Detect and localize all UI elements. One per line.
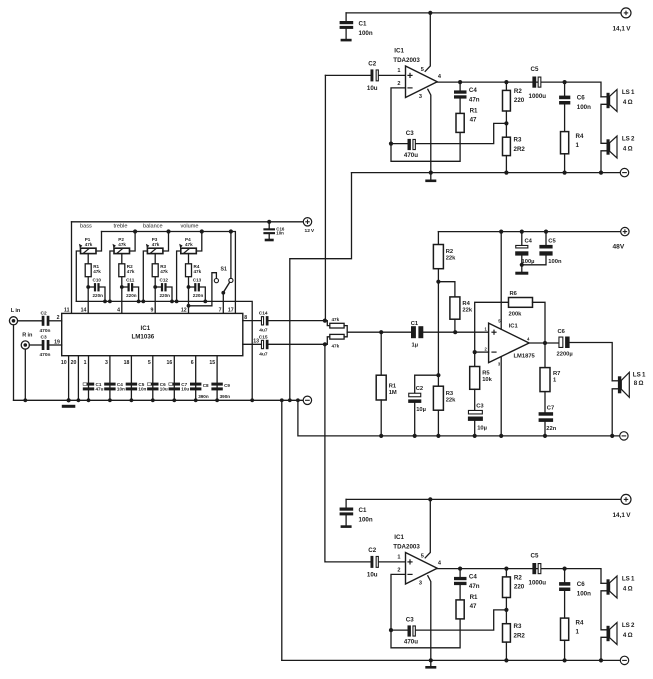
wire pin 6 [195, 356, 197, 401]
svg-text:C1: C1 [359, 21, 367, 28]
pin 16 label [167, 360, 173, 366]
svg-text:14,1 V: 14,1 V [613, 25, 632, 32]
label C4 47n (top amp) [469, 87, 480, 103]
label C6 100n (top amp) [577, 95, 591, 112]
svg-text:C6: C6 [577, 581, 585, 588]
svg-text:R4: R4 [576, 619, 584, 626]
label 47k R [332, 344, 340, 349]
svg-text:100n: 100n [548, 259, 562, 265]
svg-text:8 Ω: 8 Ω [634, 380, 644, 387]
wire pin 5 (top amp) [425, 13, 430, 71]
junction C13-gnd [203, 300, 207, 304]
capacitor C1 47u [83, 383, 94, 391]
svg-text:C2: C2 [368, 547, 376, 554]
capacitor C7 10u [169, 383, 180, 391]
label C5 10n [138, 382, 146, 392]
junction output-R2 (top amp) [504, 80, 508, 84]
label C11 [126, 278, 135, 283]
svg-text:15: 15 [209, 360, 215, 366]
wire R6-out [533, 302, 546, 343]
label C1 100n (bottom amp) [359, 507, 373, 523]
wire P1 right [96, 232, 102, 252]
wire top amp ground return [290, 173, 352, 401]
label R3 2R2 (top amp) [514, 137, 526, 153]
label C1 1u [411, 321, 419, 349]
capacitor C4 10n [104, 383, 115, 391]
svg-text:10n: 10n [117, 387, 125, 392]
svg-text:IC1: IC1 [141, 325, 151, 332]
label C12 [160, 278, 169, 283]
resistor R2 47k [119, 264, 125, 277]
wire minus rail (bottom amp) [282, 659, 621, 661]
label P2 47k [118, 237, 126, 247]
svg-text:3: 3 [105, 360, 108, 366]
junction P3 top [166, 229, 170, 233]
junction R4-gnd (bottom amp) [563, 658, 567, 662]
capacitor C3 10u [468, 389, 483, 436]
junction output-R2 (bottom amp) [504, 567, 508, 571]
svg-text:C2: C2 [41, 310, 47, 316]
wire LS1 mid bottom [612, 389, 618, 436]
svg-text:1µ: 1µ [412, 343, 419, 349]
ground bus sym [62, 405, 76, 408]
label L in [11, 308, 21, 314]
capacitor C6 (bottom amp) [559, 569, 570, 619]
junction out node [543, 341, 547, 345]
pin 5 label [148, 360, 151, 366]
svg-text:6: 6 [191, 360, 194, 366]
junction C4-C5 [520, 263, 524, 267]
wire pin 10 [68, 356, 70, 401]
svg-text:R3: R3 [514, 137, 522, 144]
wire R2-R3 [437, 282, 439, 376]
wire L in [18, 320, 42, 322]
wire P2 left [110, 251, 114, 301]
svg-text:C8: C8 [203, 383, 209, 388]
svg-text:R in: R in [22, 332, 33, 338]
junction R2-R4 [436, 280, 440, 284]
op-amp IC1 LM1875 [489, 323, 529, 363]
terminal minus (top amp) [620, 168, 628, 176]
capacitor C1 1u [411, 326, 489, 338]
svg-text:R2: R2 [446, 249, 453, 255]
svg-text:100n: 100n [577, 104, 591, 111]
pin1 lbl [485, 327, 488, 332]
resistor R2 (top amp) [503, 82, 511, 123]
svg-text:18: 18 [124, 360, 130, 366]
svg-text:C14: C14 [259, 310, 268, 316]
terminal L in [9, 317, 17, 325]
resistor R1 1M [376, 332, 386, 436]
potentiometer P3 47k [146, 244, 163, 254]
label C6 2200u [557, 329, 573, 357]
svg-text:2200µ: 2200µ [557, 351, 573, 357]
wire L in gnd [13, 325, 15, 400]
label IC1 TDA2003 (bottom amp) [393, 534, 420, 551]
terminal +14.1V (bottom amp) [621, 494, 631, 504]
label C12 220n [160, 293, 171, 298]
label C6 10u [160, 382, 168, 392]
svg-text:volume: volume [181, 223, 199, 229]
label C9 390n [220, 383, 231, 399]
resistor R4 47k [186, 264, 192, 277]
wire out [529, 342, 558, 344]
pin 3 (top amp) [419, 94, 422, 100]
svg-text:220n: 220n [93, 293, 104, 298]
svg-text:4 Ω: 4 Ω [623, 145, 633, 152]
svg-text:C5: C5 [531, 66, 539, 73]
svg-text:4 Ω: 4 Ω [623, 585, 633, 592]
junction P4 left-gnd [175, 300, 179, 304]
label C4 10n [117, 382, 125, 392]
label C10 220n [93, 293, 104, 298]
label 48V [613, 243, 625, 250]
label R2 220 (top amp) [514, 88, 525, 104]
capacitor C4 (bottom amp) [454, 569, 467, 600]
svg-text:47k: 47k [118, 242, 126, 247]
capacitor C6 (top amp) [559, 82, 570, 132]
junction R2-R3 (bottom amp) [504, 608, 508, 612]
junction LS1-gnd [610, 434, 614, 438]
potentiometer P1 47k [79, 244, 96, 254]
wire pin 15 [216, 356, 218, 401]
op-amp IC1 TDA2003 (top amp) [406, 66, 438, 98]
label R5 10k [482, 370, 492, 383]
svg-text:LS 1: LS 1 [622, 89, 635, 96]
loudspeaker LS1 (bottom amp) [607, 576, 618, 598]
svg-text:470n: 470n [40, 352, 51, 358]
svg-text:2R2: 2R2 [514, 146, 526, 153]
label P1 47k [85, 237, 93, 247]
capacitor C12 220n [155, 283, 172, 301]
label 14,1 V (top amp) [613, 25, 632, 32]
wire pin 3 [109, 356, 111, 401]
label R6 [510, 291, 518, 297]
svg-text:R3: R3 [446, 391, 454, 397]
junction R4-gnd (top amp) [563, 171, 567, 175]
label R1 47 (bottom amp) [470, 594, 478, 610]
label C5 100n [548, 239, 562, 266]
pin 18 label [124, 360, 130, 366]
svg-text:C1: C1 [411, 321, 419, 327]
label R2 47k [127, 264, 135, 274]
wire LS1-LS2 (bottom amp) [601, 591, 607, 630]
svg-text:C9: C9 [224, 383, 230, 388]
svg-text:IC1: IC1 [509, 324, 519, 330]
wire LS2-gnd (bottom amp) [601, 637, 607, 660]
junction gndsym-bus [67, 398, 71, 402]
junction C16 [267, 220, 271, 224]
capacitor C6 10u [147, 383, 158, 391]
capacitor C4 (top amp) [454, 82, 467, 113]
label C11 220n [126, 293, 137, 298]
wire P3 wiper pin 9 [154, 254, 156, 314]
svg-text:47k: 47k [332, 344, 340, 349]
svg-text:16: 16 [167, 360, 173, 366]
terminal +12V [303, 218, 311, 226]
capacitor C13 220n [189, 283, 206, 301]
svg-text:C3: C3 [406, 617, 414, 624]
svg-text:3: 3 [419, 94, 422, 100]
pin 3 (bottom amp) [419, 580, 422, 586]
svg-text:10u: 10u [160, 387, 168, 392]
resistor R1 47k [85, 264, 91, 277]
wire pin 2 feedback (top amp) [391, 88, 460, 161]
svg-text:IC1: IC1 [394, 47, 404, 54]
label C10 [93, 278, 102, 283]
svg-text:1: 1 [84, 360, 87, 366]
loudspeaker LS2 (top amp) [607, 136, 618, 158]
pin5 lbl [498, 319, 501, 324]
wire P3 right [163, 232, 169, 252]
svg-text:47u: 47u [96, 387, 104, 392]
pin 1 (bottom amp) [397, 554, 400, 560]
svg-text:1000u: 1000u [529, 93, 547, 100]
svg-text:S1: S1 [221, 266, 227, 272]
wire input (bottom amp) [325, 561, 370, 563]
svg-text:2: 2 [397, 81, 400, 87]
wire R in gnd [24, 349, 26, 400]
label volume [181, 223, 199, 229]
resistor R7 1 [540, 343, 550, 392]
label 200k [509, 311, 523, 317]
wire pin 20 [77, 356, 79, 401]
pin 20 label [71, 360, 77, 366]
junction LS-gnd (top amp) [599, 171, 603, 175]
junction pin 6-bus [194, 398, 198, 402]
pin 4 (bottom amp) [438, 561, 442, 567]
svg-text:10µ: 10µ [477, 425, 487, 431]
svg-text:C15: C15 [259, 334, 268, 340]
svg-text:treble: treble [114, 223, 128, 229]
svg-text:R2: R2 [514, 574, 522, 581]
junction pin 20-bus [77, 398, 81, 402]
label C4 100u [522, 239, 535, 266]
svg-text:LS 2: LS 2 [622, 622, 635, 629]
svg-text:19: 19 [54, 339, 60, 345]
svg-text:47k: 47k [160, 269, 168, 274]
label C2 10u [416, 386, 426, 413]
wire pin 8 [243, 320, 261, 322]
svg-text:C11: C11 [126, 278, 135, 283]
wire pin 5 (bottom amp) [425, 499, 430, 557]
label C7 10u [181, 382, 189, 392]
svg-text:10: 10 [61, 360, 67, 366]
capacitor C2 input [42, 316, 62, 326]
junction LS-gnd (bottom amp) [599, 658, 603, 662]
svg-text:R6: R6 [510, 291, 518, 297]
pin 1 label [84, 360, 87, 366]
svg-text:8: 8 [244, 315, 247, 321]
svg-text:C5: C5 [531, 553, 539, 560]
capacitor C5 (bottom amp) [532, 563, 540, 574]
wire pin 5 [152, 356, 154, 401]
pin 17 label [228, 308, 234, 314]
svg-text:2: 2 [57, 315, 60, 321]
svg-text:2: 2 [397, 567, 400, 573]
svg-text:4 Ω: 4 Ω [623, 99, 633, 106]
resistor R2 22k [433, 232, 443, 282]
capacitor C10 220n [88, 283, 105, 301]
junction pin13-riser [323, 342, 327, 346]
junction P3 left-gnd [141, 300, 145, 304]
capacitor C3 (top amp) [391, 123, 506, 150]
junction inv node [473, 350, 477, 354]
label R3 2R2 (bottom amp) [514, 623, 526, 639]
svg-text:C5: C5 [548, 239, 556, 245]
svg-text:48V: 48V [613, 243, 625, 250]
svg-text:4 Ω: 4 Ω [623, 632, 633, 639]
wire mid rail [438, 231, 621, 233]
svg-text:470n: 470n [40, 328, 51, 334]
capacitor C9 390n [211, 383, 222, 391]
wire LS2-gnd (top amp) [601, 151, 607, 173]
wire P1 left [76, 251, 80, 301]
label R1 47k [93, 264, 101, 274]
label IC1 TDA2003 (top amp) [393, 47, 420, 64]
junction wiper-C12 [153, 285, 157, 289]
IC LM1036 box [62, 313, 243, 355]
ground C1 (top amp) [341, 39, 352, 42]
terminal mid minus [620, 432, 628, 440]
svg-text:C1: C1 [359, 507, 367, 514]
wire S1 a [189, 273, 217, 306]
svg-text:3: 3 [419, 580, 422, 586]
svg-text:LM1036: LM1036 [132, 333, 155, 340]
junction bus-line3 [250, 398, 254, 402]
svg-text:C3: C3 [476, 403, 484, 409]
wire pot top line [102, 232, 236, 314]
wire pot gnd line [76, 301, 252, 400]
capacitor C3 (bottom amp) [391, 610, 506, 637]
pin 6 label [191, 360, 194, 366]
svg-text:R4: R4 [462, 301, 470, 307]
wire pin 16 [173, 356, 175, 401]
label R4 22k [462, 301, 472, 314]
capacitor C15 4u7 [261, 340, 324, 349]
svg-text:47k: 47k [332, 317, 340, 322]
switch S1 [214, 278, 233, 294]
label C13 [193, 278, 202, 283]
wire mono input [347, 331, 411, 333]
pin 5 (top amp) [421, 67, 424, 73]
svg-text:C6: C6 [558, 329, 566, 335]
junction bus-topamp [288, 398, 292, 402]
label C13 220n [193, 293, 204, 298]
svg-text:R1: R1 [389, 383, 397, 389]
capacitor C2 (top amp) [371, 69, 406, 81]
label C7 22n [546, 405, 556, 432]
label IC1 LM1036 [132, 325, 155, 341]
label C5 1000u (top amp) [529, 66, 547, 100]
label C4 47n (bottom amp) [469, 574, 480, 590]
svg-text:10µ: 10µ [416, 407, 426, 413]
svg-text:100n: 100n [577, 591, 591, 598]
loudspeaker LS2 (bottom amp) [607, 623, 618, 645]
capacitor C1 (bottom amp) [340, 499, 354, 525]
svg-text:C13: C13 [193, 278, 202, 283]
wire P4 left [177, 251, 181, 301]
junction bus-botamp [280, 398, 284, 402]
junction pin 18-bus [130, 398, 134, 402]
resistor R1 (bottom amp) [456, 600, 464, 619]
junction wiper-C11 [120, 285, 124, 289]
junction C5-rail [544, 230, 548, 234]
svg-text:100n: 100n [359, 516, 373, 523]
svg-text:22k: 22k [462, 307, 472, 313]
svg-text:47k: 47k [85, 242, 93, 247]
label LS2 4ohm (top amp) [622, 135, 635, 152]
svg-text:10n: 10n [138, 387, 146, 392]
label treble [114, 223, 128, 229]
junction pin 10-bus [67, 398, 71, 402]
junction C3-gnd [473, 434, 477, 438]
label LS1 4ohm (top amp) [622, 89, 635, 106]
label balance [143, 223, 163, 229]
resistor R3 47k [152, 264, 158, 277]
wire fb up [475, 302, 509, 352]
wire bottom amp input riser [324, 344, 327, 562]
svg-text:10n: 10n [276, 231, 284, 236]
svg-text:1: 1 [576, 142, 580, 149]
junction C12-gnd [170, 300, 174, 304]
junction R4-input [453, 330, 457, 334]
junction pin3-gnd [499, 434, 503, 438]
svg-text:22n: 22n [546, 426, 556, 432]
pin 2 label [57, 315, 60, 321]
terminal minus (bottom amp) [620, 656, 628, 664]
pin 19 label [54, 339, 60, 345]
svg-text:C12: C12 [160, 278, 169, 283]
svg-text:C2: C2 [416, 386, 423, 392]
label C8 390n [198, 383, 209, 399]
wire LS1 mid top [612, 380, 618, 382]
svg-text:220n: 220n [193, 293, 204, 298]
wire pin 18 [130, 356, 132, 401]
svg-text:LS 1: LS 1 [633, 371, 646, 378]
label IC1 [509, 324, 519, 330]
label C3 470u (bottom amp) [404, 617, 418, 646]
svg-text:10u: 10u [367, 85, 378, 92]
label P4 47k [185, 237, 193, 247]
junction pin 1-bus [87, 398, 91, 402]
pin 7 label [219, 308, 222, 314]
wire pin 3 (bottom amp) [428, 576, 431, 661]
resistor R3 22k [433, 375, 443, 436]
junction C4-rail [520, 230, 524, 234]
ground C16 [265, 239, 274, 242]
capacitor C7 22n [539, 392, 554, 436]
junction R1-gnd [379, 434, 383, 438]
svg-text:47k: 47k [185, 242, 193, 247]
svg-text:470u: 470u [404, 638, 418, 645]
wire P4 right [196, 232, 202, 252]
loudspeaker LS1 (top amp) [607, 90, 618, 112]
svg-text:22k: 22k [446, 255, 456, 261]
svg-text:C4: C4 [525, 239, 533, 245]
wire P2 right [130, 232, 136, 252]
label R3 22k [446, 391, 456, 404]
junction pin2-C3 (top amp) [389, 142, 393, 146]
label R1 1M [389, 383, 397, 396]
wire pin 2 feedback (bottom amp) [391, 574, 460, 647]
junction R1 1M [379, 330, 383, 334]
pin 15 label [209, 360, 215, 366]
label R3 47k [160, 264, 168, 274]
label S1 [221, 266, 227, 272]
svg-text:LS 2: LS 2 [622, 135, 635, 142]
svg-text:47: 47 [470, 117, 477, 124]
